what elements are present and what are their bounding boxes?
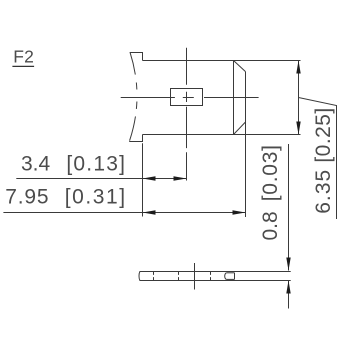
dimension text 0.8 (rotated): [259, 144, 282, 240]
hole rectangle (side view): [171, 89, 203, 106]
tab tip right edge + extension line down to 7.95 dim: [245, 72, 247, 217]
top view tip detail left arc: [225, 273, 227, 280]
leader from 6.35 dim line to text shelf: [299, 98, 337, 220]
arrowhead 6.35 top: [296, 61, 300, 74]
horizontal centerline: [121, 97, 259, 99]
tab bottom edge + extension line to 6.35 dim: [143, 134, 301, 136]
tab outline bottom-left step: [129, 135, 142, 142]
dimension line 3.4 with text shelf: [16, 178, 186, 180]
dimension line 0.8 upper segment: [288, 144, 290, 271]
dimension line 0.8 lower segment: [288, 281, 290, 309]
tab outline top-left step: [130, 53, 143, 61]
top view strip bottom edge: [140, 280, 291, 282]
extension line x=142.4 for 3.4 and 7.95 dims: [142, 143, 144, 216]
break line (side view left): [129, 52, 137, 141]
svg-text:3.4: 3.4: [21, 153, 51, 176]
top view vertical centerline: [194, 263, 196, 290]
vertical centerline / 3.4 extension: [186, 48, 188, 181]
svg-text:7.95: 7.95: [5, 185, 49, 208]
arrowhead 0.8 lower (points up): [286, 281, 290, 294]
view label F2: [13, 46, 34, 66]
svg-text:[0.25]: [0.25]: [312, 107, 335, 162]
tab top edge + extension line to 6.35 dim: [143, 60, 301, 62]
hidden line (hole edge) x=178.6: [178, 272, 180, 281]
arrowhead 0.8 upper (points down): [286, 258, 290, 271]
arrowhead 7.95 right: [233, 210, 246, 214]
dimension text 7.95: [5, 185, 126, 208]
tab tip vertical line: [233, 61, 235, 135]
arrowhead 7.95 left: [143, 210, 156, 214]
svg-text:[0.13]: [0.13]: [66, 153, 126, 176]
top view tip detail right edge: [234, 273, 236, 280]
dimension line 7.95 with text shelf: [3, 212, 245, 214]
hidden line (hole edge) x=153: [153, 272, 155, 281]
top view tip detail bottom line: [226, 278, 234, 280]
hidden line (hole edge) x=210.8: [210, 272, 212, 281]
arrowhead 3.4 left: [143, 176, 156, 180]
tab tip top chamfer: [234, 61, 246, 72]
svg-text:[0.31]: [0.31]: [65, 185, 127, 208]
arrowhead 3.4 right: [174, 176, 187, 180]
svg-text:[0.03]: [0.03]: [259, 144, 282, 201]
dimension text 3.4: [21, 153, 126, 176]
svg-text:6.35: 6.35: [312, 169, 335, 214]
dimension line 6.35 (vertical, right): [298, 61, 300, 135]
tab tip bottom chamfer: [234, 122, 246, 135]
svg-text:F2: F2: [13, 46, 34, 66]
view label F2 underline: [12, 65, 34, 67]
top view strip top edge: [140, 271, 291, 273]
dimension text 6.35 (rotated): [312, 107, 335, 213]
arrowhead 6.35 bottom: [296, 122, 300, 135]
top view tip detail top line: [226, 272, 234, 274]
top view strip left break edge: [138, 272, 141, 281]
svg-text:0.8: 0.8: [259, 211, 282, 240]
